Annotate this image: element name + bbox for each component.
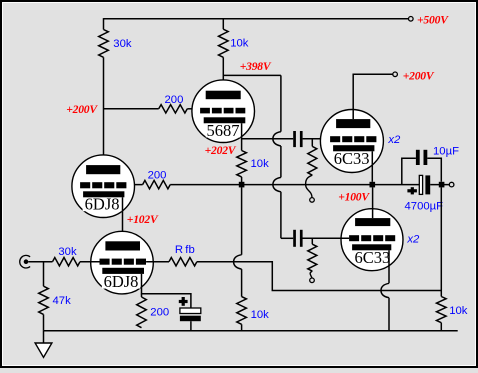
resistor R9 47k — [39, 286, 49, 314]
wire 47k to ground — [43, 314, 45, 330]
wire 200 top lead — [141, 294, 143, 297]
resistor R8 30k input — [53, 258, 81, 266]
wire 10uF riser right — [427, 158, 441, 182]
node C junction — [439, 182, 445, 188]
label +100V — [338, 190, 370, 203]
wire top B+ rail — [104, 18, 410, 20]
resistor R10 200 — [137, 297, 147, 328]
wire 10k to ground rail — [241, 324, 243, 331]
wire 10k lower drop — [234, 187, 242, 296]
svg-text:200: 200 — [165, 94, 184, 106]
svg-text:6C33: 6C33 — [355, 248, 391, 267]
svg-text:5687: 5687 — [207, 121, 240, 140]
wire output drop to 10k — [440, 187, 442, 296]
capacitor C3 bypass — [179, 297, 201, 321]
wire U1b grid to Rfb — [146, 261, 169, 263]
wire R11 tail — [310, 271, 312, 278]
svg-text:x2: x2 — [406, 234, 420, 246]
svg-text:10k: 10k — [449, 305, 468, 317]
terminal R11 return — [310, 278, 315, 283]
label 10k R12 — [449, 305, 468, 317]
wire output — [430, 184, 449, 186]
wire U3 plate to +200V — [353, 74, 393, 119]
svg-text:+202V: +202V — [205, 144, 237, 157]
wire plate to lower coupling cap — [273, 75, 281, 238]
wire U3 cathode — [371, 151, 373, 182]
resistor R5 10k — [237, 151, 247, 177]
svg-text:200: 200 — [148, 170, 167, 182]
svg-text:+500V: +500V — [417, 14, 449, 27]
resistor R1 30k — [99, 30, 109, 58]
label +200V right — [403, 69, 435, 82]
resistor R3 200 — [159, 105, 188, 113]
resistor R12 10k — [437, 297, 447, 323]
wire grid resistor lower lead — [311, 238, 313, 244]
label x2 lower — [406, 234, 420, 246]
resistor R7 10k — [237, 297, 247, 325]
node +200V tee — [104, 108, 159, 110]
label 47k R9 — [53, 295, 72, 307]
svg-text:10k: 10k — [230, 38, 249, 50]
triode U1b 6DJ8 — [91, 231, 154, 294]
svg-text:6DJ8: 6DJ8 — [104, 272, 139, 291]
wire 5687 cathode to C1 — [242, 138, 294, 140]
wire 30k top lead — [103, 18, 105, 29]
svg-text:R fb: R fb — [175, 244, 195, 256]
svg-text:+200V: +200V — [403, 69, 435, 82]
label Rfb — [175, 244, 195, 256]
svg-text:10k: 10k — [251, 309, 270, 321]
terminal +200V — [393, 72, 398, 77]
resistor R6 grid leak — [308, 146, 317, 175]
wire grid resistor upper lead — [311, 139, 313, 147]
label 10k R2 — [230, 38, 249, 50]
node A junction — [239, 182, 245, 188]
triode U1a 6DJ8 — [72, 155, 135, 218]
label 30k R1 — [113, 38, 132, 50]
label x2 upper — [387, 134, 401, 146]
svg-text:10k: 10k — [251, 158, 270, 170]
wire 10k to ground rail right — [440, 323, 442, 331]
svg-text:47k: 47k — [53, 295, 72, 307]
capacitor C4 4700uF — [407, 175, 430, 194]
wire ground stub — [43, 331, 45, 343]
wire ground rail — [44, 330, 458, 332]
wire U4 cathode to ground — [381, 250, 389, 330]
wire input — [28, 261, 52, 263]
label 200 R3 — [165, 94, 184, 106]
terminal R6 return — [310, 198, 315, 203]
svg-text:+100V: +100V — [338, 190, 370, 203]
svg-text:30k: 30k — [58, 246, 77, 258]
wire 5687 cathode drop — [241, 123, 243, 150]
triode U3 6C33 — [320, 110, 383, 173]
svg-text:4700µF: 4700µF — [405, 200, 444, 212]
ground — [35, 343, 52, 357]
resistor Rfb — [169, 258, 197, 266]
wire C1 to 6C33 grid — [303, 138, 331, 140]
wire 10k top lead — [222, 18, 224, 29]
label +200V left — [66, 103, 98, 116]
wire U1b cathode — [142, 274, 191, 308]
wire 30k to 6DJ8 plate — [103, 57, 105, 165]
wire 200 to 5687 grid — [187, 108, 200, 110]
terminal +500V — [409, 17, 414, 22]
capacitor C5 10uF — [416, 150, 427, 165]
label +202V — [205, 144, 237, 157]
wire Rfb to feedback line — [197, 262, 441, 291]
svg-text:+102V: +102V — [127, 213, 159, 226]
resistor R4 200 — [143, 180, 171, 188]
label 10k R7 — [251, 309, 270, 321]
wire +100V rail — [170, 184, 419, 186]
input jack J1 — [20, 255, 30, 268]
label 200 R4 — [148, 170, 167, 182]
node +398V — [223, 74, 281, 76]
label 30k R8 — [58, 246, 77, 258]
label 10k R5 — [251, 158, 270, 170]
svg-text:6C33: 6C33 — [334, 149, 370, 168]
svg-text:6DJ8: 6DJ8 — [85, 195, 120, 214]
label +398V — [240, 60, 272, 73]
wire 10k to node — [241, 177, 243, 185]
node B junction — [370, 182, 376, 188]
wire corner to C2 — [281, 237, 293, 239]
capacitor C2 — [293, 230, 302, 247]
wire U4 plate — [372, 187, 374, 218]
wire U4 grid to C2 — [302, 237, 349, 239]
svg-text:x2: x2 — [387, 134, 401, 146]
wire 10uF riser left — [402, 158, 416, 184]
label +500V — [417, 14, 449, 27]
label 200 R10 — [150, 307, 169, 319]
capacitor C1 — [293, 131, 302, 147]
label 4700uF — [405, 200, 444, 212]
triode U4 6C33 — [341, 209, 403, 271]
wire +100V rail left — [126, 184, 142, 186]
wire U1a cathode to U1b plate — [122, 197, 124, 241]
terminal output — [449, 182, 454, 187]
svg-text:10µF: 10µF — [433, 145, 459, 157]
svg-text:+200V: +200V — [66, 103, 98, 116]
svg-text:30k: 30k — [113, 38, 132, 50]
label 10uF — [433, 145, 459, 157]
svg-text:200: 200 — [150, 307, 169, 319]
wire 47k top lead — [43, 262, 45, 287]
wire R6 tail — [306, 175, 313, 197]
resistor R11 grid leak — [308, 244, 317, 271]
resistor R2 10k — [219, 29, 229, 57]
triode U2 5687 — [192, 80, 255, 143]
wire 30k to U1b grid — [80, 261, 100, 263]
wire C3 to ground — [190, 321, 192, 331]
svg-text:+398V: +398V — [240, 60, 272, 73]
label +102V — [127, 213, 159, 226]
wire 10k to 5687 plate — [222, 57, 224, 90]
